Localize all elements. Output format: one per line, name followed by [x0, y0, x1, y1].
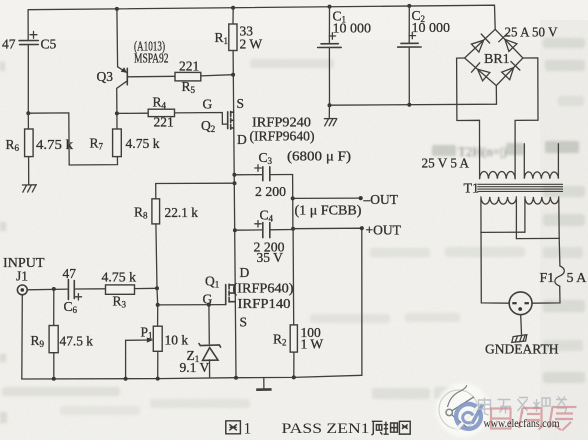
- diode BR1 bottom-right: [502, 62, 520, 80]
- resistor R3: [106, 285, 135, 294]
- svg-text:PASS ZEN1: PASS ZEN1: [282, 421, 370, 437]
- node +OUT terminal: [360, 226, 364, 230]
- resistor R9: [49, 326, 58, 353]
- ground earth below C1: [324, 105, 336, 126]
- transistor Q2 MOSFET: [228, 111, 234, 129]
- wire bottom ground rail: [22, 375, 362, 379]
- wire C5 bottom lead: [27, 45, 29, 114]
- wire C3 to output vertical: [270, 174, 293, 176]
- node drain / C4: [233, 228, 237, 232]
- node gate line / P1: [156, 303, 160, 307]
- node R3 / R8 junction: [155, 286, 159, 290]
- wire gate node down and across to Q1 gate: [157, 288, 226, 305]
- transformer T1 secondary winding left: [480, 171, 516, 178]
- diode BR1 top-left: [471, 34, 489, 52]
- potentiometer P1: [153, 326, 162, 351]
- wire P1 top lead: [157, 305, 159, 326]
- wire R7 top lead: [116, 113, 118, 129]
- wire C2 top lead: [408, 6, 410, 43]
- wire R6 bottom lead: [28, 157, 30, 185]
- transformer T1 primary winding right: [525, 197, 559, 204]
- wire P1 wiper arm: [126, 340, 151, 379]
- capacitor C4: [263, 223, 270, 238]
- wire primary parallel jumper lower: [516, 237, 559, 239]
- wire fuse to mains line: [532, 286, 560, 303]
- resistor R7: [113, 129, 122, 157]
- node rail/P1: [156, 377, 160, 381]
- node rail/Q1 source: [234, 376, 238, 380]
- watermark text dianzifashaoyou: [479, 397, 568, 416]
- node rail/R2: [292, 375, 296, 379]
- wire drain to C3: [234, 174, 262, 176]
- wire earth lead from connector: [520, 315, 523, 335]
- connector J1 input jack: [17, 285, 27, 295]
- resistor R1: [229, 24, 237, 51]
- node +OUT / R2 top: [291, 227, 295, 231]
- resistor R8: [152, 199, 160, 224]
- wire Q3 base to R5: [127, 75, 175, 78]
- node C2 bottom: [407, 103, 411, 107]
- resistor R2: [290, 325, 297, 352]
- caption figure title: [226, 421, 410, 435]
- wire P1 bottom lead: [157, 351, 159, 378]
- wire R8 bottom lead: [156, 224, 157, 288]
- node C1 bottom / ground: [328, 103, 332, 107]
- wire primary right end down to fuse: [559, 199, 560, 266]
- wire R4 left lead: [117, 112, 148, 114]
- wire primary parallel jumper upper: [481, 231, 525, 233]
- diode Z1 zener: [199, 344, 221, 361]
- wire R1 top lead: [232, 8, 234, 24]
- node top-rail/R1: [231, 6, 235, 10]
- node -OUT terminal: [359, 196, 363, 200]
- watermark logo elecfans: [436, 383, 490, 437]
- node rail/wiper: [124, 377, 128, 381]
- watermark text riyuechen: [491, 407, 577, 431]
- wire C5 top lead: [27, 10, 29, 41]
- wire Z1 bottom lead: [209, 360, 211, 378]
- node input / R9 branch: [52, 287, 56, 291]
- wire R2 top vertical: [292, 229, 295, 325]
- bridge rectifier BR1 diamond: [465, 29, 523, 85]
- wire J1 down to rail: [21, 295, 24, 379]
- wire primary left end down to mains line: [481, 199, 509, 303]
- connector AC inlet: [509, 292, 532, 315]
- ground earth below R6: [22, 185, 36, 192]
- node Q2 drain / R8: [233, 181, 237, 185]
- node top-rail/Q3 emitter: [115, 7, 119, 11]
- node rail/R9: [52, 377, 56, 381]
- transistor Q1 MOSFET: [226, 284, 235, 304]
- wire C6 to R3: [74, 288, 105, 290]
- capacitor C1: [318, 44, 342, 48]
- node top-rail/C2: [407, 4, 411, 8]
- wire drain to C4: [235, 229, 263, 231]
- node R1 bottom / Q2 source: [231, 73, 235, 77]
- wire R2 bottom lead: [293, 352, 295, 377]
- node top-rail/C1: [328, 5, 332, 9]
- transformer T1 primary winding left: [481, 197, 517, 204]
- wire R9 bottom lead: [53, 353, 55, 379]
- capacitor C5: [19, 41, 38, 45]
- wire C1 bottom lead: [328, 48, 330, 106]
- capacitor C6: [68, 280, 74, 300]
- wire top supply rail: [28, 5, 495, 29]
- svg-text:1: 1: [244, 421, 252, 438]
- wire output vertical C3-C4: [292, 175, 294, 229]
- transistor Q3: [117, 9, 128, 114]
- ground GND EARTH symbol: [512, 335, 527, 343]
- node -OUT branch: [291, 196, 295, 200]
- wire Z1 top lead: [208, 305, 210, 344]
- wire C1 top lead: [328, 7, 330, 44]
- wire R6 top lead: [27, 113, 29, 129]
- node Q3 collector / R4 / R7: [115, 111, 119, 115]
- wire C4 to +OUT node: [270, 229, 293, 231]
- fuse F1: [555, 266, 564, 286]
- node Q2 drain / C3: [232, 173, 236, 177]
- wire to +OUT and down to rail: [293, 228, 362, 375]
- wire R9 top lead: [53, 289, 55, 326]
- wire R3 to gate node: [135, 287, 158, 289]
- resistor R5: [175, 72, 201, 81]
- node gate line / Z1: [207, 303, 211, 307]
- wire bridge left corner to secondary left end: [457, 58, 480, 179]
- wire J1 to C6: [27, 288, 68, 291]
- resistor R4: [148, 109, 174, 116]
- resistor R6: [25, 129, 33, 157]
- transformer T1 secondary winding right: [524, 144, 558, 179]
- wire C2 bottom lead: [408, 47, 410, 105]
- transformer T1 core: [477, 184, 563, 191]
- wire mid ground rail to bridge bottom: [330, 86, 497, 105]
- ground symbol on bottom rail: [263, 378, 265, 390]
- svg-text:www.elecfans.com: www.elecfans.com: [484, 418, 560, 430]
- wire primary W1 right lead: [515, 199, 517, 239]
- wire R4 to Q2 gate: [175, 113, 228, 125]
- capacitor C3: [263, 167, 270, 181]
- capacitor C2: [398, 43, 421, 47]
- diode BR1 bottom-left: [472, 63, 490, 81]
- wire to -OUT: [293, 197, 361, 199]
- diode BR1 top-right: [499, 33, 517, 51]
- wire R8 top lead: [156, 183, 235, 199]
- wire bridge right corner to secondary right end: [515, 58, 538, 179]
- wire R6-node to R7 bottom: [28, 113, 117, 165]
- wire R5 to R1 node: [201, 75, 233, 76]
- wire main vertical R1 to bottom rail through Q2 and Q1: [233, 51, 236, 378]
- node C5/R6 junction: [26, 111, 30, 115]
- wire primary W2 left lead: [524, 199, 526, 232]
